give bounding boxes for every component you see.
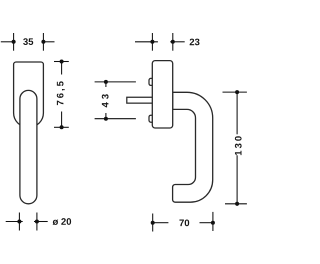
screw clip lower (back of rose) (149, 115, 155, 122)
handle lever (side view J-shape) (173, 92, 213, 202)
dimension 70 (bottom right) (153, 212, 215, 232)
dimension 76,5 (right of rose front) (54, 62, 69, 129)
dimension 23 (top right) (135, 33, 185, 51)
handle grip front (capsule over rose) (20, 90, 37, 203)
spindle (square shaft) (127, 97, 153, 103)
dimension 43 (hole spacing, left of side view) (95, 82, 136, 119)
dimension 35 (top left) (1, 33, 55, 51)
rose plate side view (152, 61, 172, 128)
dimension ø 20 (bottom left) (6, 213, 48, 231)
screw clip upper (back of rose) (149, 78, 155, 85)
rose plate front (rounded rect, small top radius, large bottom radius) (14, 62, 44, 127)
dimension 130 (far right) (223, 92, 247, 206)
